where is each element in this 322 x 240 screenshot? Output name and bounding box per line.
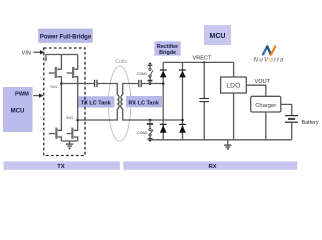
label RX LC Tank [126,96,162,107]
svg-text:COM1: COM1 [137,72,147,76]
ground TX [66,141,73,150]
coils outline ellipse [108,66,130,141]
wire charger to battery [281,104,292,115]
wire bridge leg1 [162,62,164,139]
label Rectifier Brigde [154,41,180,56]
svg-text:VOUT: VOUT [255,79,271,85]
wire TX low-side source rail [61,140,77,142]
logo NuVolta mark [263,46,275,54]
svg-text:RX LC Tank: RX LC Tank [128,100,159,106]
wire cap to TX coil [98,84,118,96]
svg-text:NuVolta: NuVolta [254,57,285,64]
label Power Full-Bridge [38,29,92,43]
wire bridge leg2 [182,62,184,139]
svg-text:MCU: MCU [11,108,25,114]
transistor Q4 (low-side right) [67,120,78,141]
inductor RX coil [121,95,123,109]
svg-text:SW1: SW1 [50,85,57,89]
svg-text:Rectifier: Rectifier [157,44,178,50]
node junction cap tap [203,61,205,63]
battery [285,116,298,140]
svg-text:Battery: Battery [302,120,319,126]
svg-text:LDO: LDO [226,82,240,89]
svg-text:Coils: Coils [115,59,127,65]
transistor Q2 (high-side right) [67,55,78,121]
node bridge AC1 [162,82,165,85]
capacitor TX series [94,80,96,87]
svg-text:Charger: Charger [255,103,276,109]
svg-text:Power Full-Bridge: Power Full-Bridge [40,35,92,41]
bar TX [4,161,120,170]
wire RX bottom rail [150,139,292,141]
wire RX coil top to RX cap [123,84,139,96]
wire SW1 to TX cap [61,83,94,85]
wire TX coil bottom to SW2 [78,109,118,120]
node COM2 [149,119,152,122]
TX bridge dashed box [44,48,85,156]
switch COM1 [148,62,153,83]
inductor TX coil [117,95,119,109]
transistor Q3 (low-side left) [49,84,62,142]
node SW1 [60,82,63,85]
diode D4 (bottom right) [179,123,186,125]
svg-text:VRECT: VRECT [193,56,213,62]
capacitor VRECT bulk [199,62,209,139]
wire PWM arrow [33,95,39,97]
svg-text:VIN: VIN [22,50,31,56]
wire charger ground [265,112,267,140]
wire VIN arrow [34,51,41,53]
svg-text:RX: RX [208,164,216,170]
capacitor RX series [138,80,140,87]
node bridge AC2 [181,119,184,122]
wire VRECT top rail [163,61,233,63]
charger box [251,96,281,112]
wire LDO out VOUT [246,85,265,96]
svg-text:SW2: SW2 [66,116,73,120]
svg-text:MCU: MCU [210,33,226,40]
diode D1 (top left) [160,69,167,71]
diode D2 (top right) [179,69,186,71]
diode D3 (bottom left) [160,123,167,125]
node SW2 [76,119,79,122]
wire RX coil bottom to bridge leg2 [123,109,183,120]
label MCU top right [204,25,231,45]
wire VIN top rail [46,54,78,56]
transistor Q1 (high-side left) [49,55,62,84]
MCU box left with PWM [3,87,33,132]
svg-text:Brigde: Brigde [159,50,176,56]
svg-text:TX: TX [57,164,65,170]
wire RX cap to bridge leg1 [142,83,163,85]
svg-text:COM2: COM2 [137,131,147,135]
op LDO box [221,62,247,139]
switch COM2 [147,120,153,142]
ground RX [224,140,231,149]
node COM1 [149,82,152,85]
label TX LC Tank [78,96,115,107]
bar RX [123,161,297,170]
svg-text:PWM: PWM [15,92,29,98]
